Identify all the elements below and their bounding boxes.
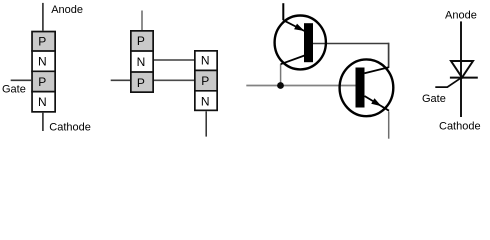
svg-text:Gate: Gate	[422, 93, 446, 105]
svg-text:P: P	[201, 74, 209, 88]
svg-text:Cathode: Cathode	[439, 120, 481, 132]
svg-text:Cathode: Cathode	[49, 121, 91, 133]
svg-text:Anode: Anode	[445, 10, 477, 22]
svg-text:P: P	[38, 75, 46, 89]
svg-text:P: P	[137, 34, 145, 48]
svg-text:P: P	[137, 76, 145, 90]
svg-text:Gate: Gate	[2, 83, 26, 95]
svg-text:Anode: Anode	[51, 4, 83, 16]
svg-text:N: N	[201, 94, 210, 108]
svg-text:P: P	[38, 34, 46, 48]
svg-text:N: N	[38, 55, 47, 69]
svg-text:N: N	[137, 55, 146, 69]
svg-text:N: N	[38, 95, 47, 109]
svg-text:N: N	[201, 54, 210, 68]
